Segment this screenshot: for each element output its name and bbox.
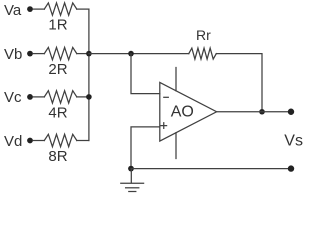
resistor 1R (44, 3, 77, 15)
wire 8R to bus (77, 140, 89, 142)
resistor 2R (44, 47, 77, 59)
svg-text:1R: 1R (48, 17, 67, 34)
svg-text:2R: 2R (48, 61, 67, 78)
svg-text:Vs: Vs (284, 133, 303, 150)
wire inverting input (131, 54, 160, 94)
op-amp bottom power pin (175, 133, 177, 159)
svg-text:8R: 8R (48, 148, 67, 165)
node Vc terminal dot (27, 94, 33, 100)
junction ground node (128, 166, 134, 172)
wire summing bus vertical (88, 9, 90, 140)
svg-text:AO: AO (171, 103, 194, 120)
ground symbol (121, 169, 144, 192)
wire Va to R1 (33, 8, 44, 10)
resistor 4R (44, 91, 77, 103)
svg-text:4R: 4R (48, 104, 67, 121)
svg-text:Rr: Rr (196, 27, 211, 43)
node Vs terminal dot (288, 109, 294, 115)
wire Rr to feedback corner (216, 54, 262, 112)
svg-text:Vd: Vd (4, 133, 22, 150)
node ground terminal dot (288, 165, 294, 171)
wire Vd to R8 (33, 140, 44, 142)
junction bus at Vb row (86, 51, 92, 57)
node Vb terminal dot (27, 51, 33, 57)
op-amp plus sign (161, 123, 167, 129)
wire bus to Rr (89, 53, 189, 55)
resistor Rr (189, 48, 217, 59)
svg-text:Vc: Vc (4, 89, 22, 106)
junction feedback-output (259, 109, 265, 115)
junction inverting feed (128, 51, 134, 57)
op-amp AO triangle (160, 82, 217, 141)
wire op-amp output (217, 111, 291, 113)
junction bus at Vc row (86, 94, 92, 100)
op-amp minus sign (164, 96, 169, 98)
node Vd terminal dot (27, 138, 33, 144)
wire ground rail (131, 168, 291, 170)
resistor 8R (44, 134, 77, 146)
wire Vc to R4 (33, 96, 44, 98)
wire 2R to bus (77, 53, 89, 55)
wire Vb to R2 (33, 53, 44, 55)
op-amp top power pin (175, 68, 177, 91)
wire non-inverting input (131, 127, 160, 169)
node Va terminal dot (27, 6, 33, 12)
svg-text:Va: Va (4, 2, 22, 19)
svg-text:Vb: Vb (4, 46, 22, 63)
wire 1R to bus (77, 8, 89, 10)
wire 4R to bus (77, 96, 89, 98)
